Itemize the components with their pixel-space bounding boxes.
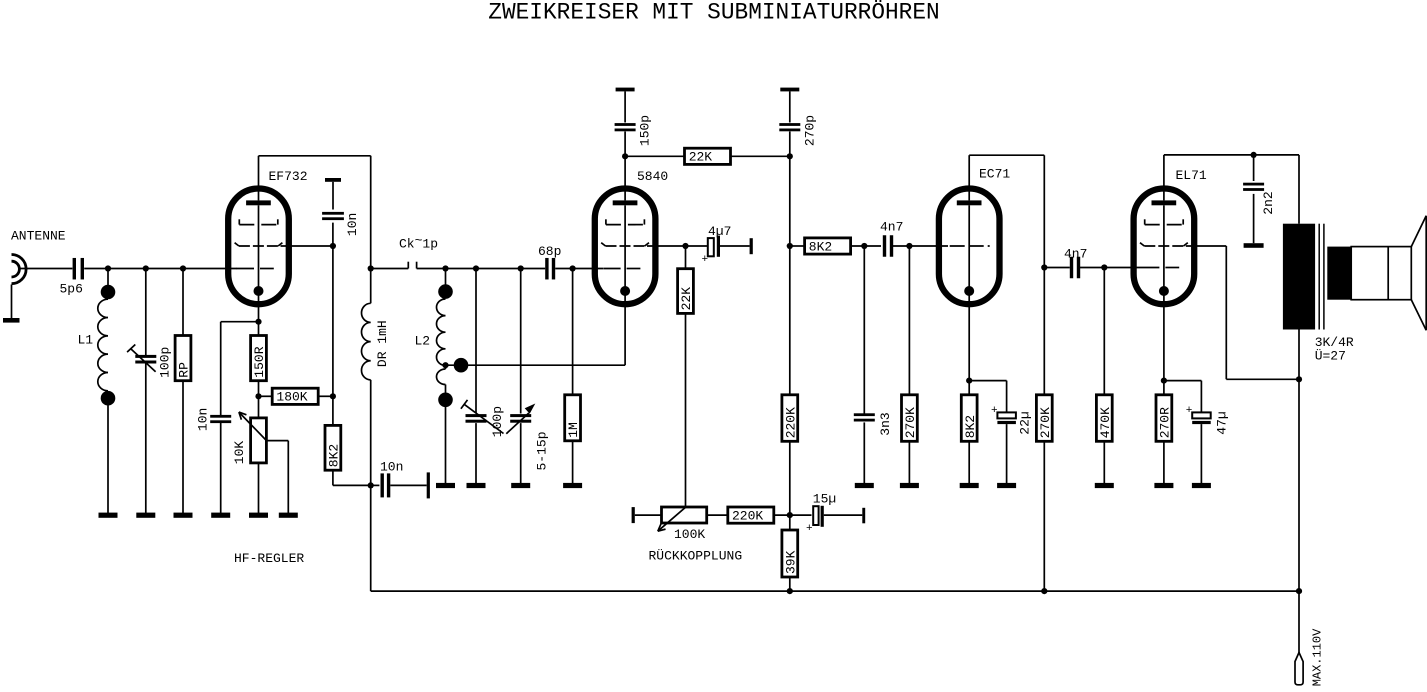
label L1 [78,333,94,348]
label 100p-2 [490,406,505,437]
svg-text:1M: 1M [566,422,581,438]
wire node to 15u [790,514,812,516]
wire to 1M [572,269,574,395]
svg-text:270K: 270K [903,407,918,438]
node 3n3 top [861,243,867,249]
svg-text:5p6: 5p6 [60,282,83,297]
wire 10K wiper [267,441,289,514]
capacitor 4u7 [708,236,720,257]
capacitor Ck [408,262,416,269]
wire to trimmer C100p [145,269,147,356]
label ANTENNE [11,229,66,244]
capacitor 5p6 [73,258,84,280]
wire bus to connector [1298,591,1300,654]
label EL71 [1176,168,1207,183]
node RP top [180,265,186,271]
wire L2 to ground [445,407,447,484]
svg-text:150R: 150R [252,346,267,377]
wire Ck to L2 [417,268,546,270]
svg-text:22K: 22K [679,287,694,311]
wire 1M to ground [572,441,574,484]
wire 150p to node [624,132,626,157]
ground 10K [249,513,268,518]
wire 270K-1 down [908,246,910,395]
wire node to 22K [625,155,685,157]
wire 470K down [1103,268,1105,395]
svg-text:8K2: 8K2 [327,444,342,467]
label 10n cathode [196,408,211,431]
capacitor 10n cathode [210,415,231,423]
wire 22K-2 down [685,246,687,269]
label 270p [802,115,817,146]
ground C5-15p [511,483,530,488]
label RUCKKOPPLUNG [649,549,743,564]
label U=27 [1315,349,1346,364]
node 220K bottom [787,512,793,518]
wire main grid line [84,268,237,270]
wire antenna to C 5p6 [19,268,72,270]
label MAX.110V [1311,628,1325,686]
svg-text:470K: 470K [1098,407,1113,438]
label 2n2 [1261,191,1276,214]
wire anode load down [1043,155,1045,395]
label 22u [1018,411,1033,434]
svg-text:EC71: EC71 [979,167,1010,182]
plus 4u7 [702,254,709,266]
node 470K top [1101,264,1107,270]
label 68p [538,244,561,259]
wire 100K to 220K [706,514,728,516]
wire trimmer-2 to ground [475,423,477,483]
node L1 top [105,265,111,271]
svg-text:5-15p: 5-15p [535,431,550,470]
svg-text:+: + [702,254,709,266]
wire 47u to ground [1200,424,1202,483]
resistor 220K feedback [728,507,774,523]
capacitor 4n7 second [1070,257,1080,279]
node L2 top [442,265,448,271]
node L2 tap [442,358,468,373]
svg-text:2n2: 2n2 [1261,191,1276,214]
svg-text:68p: 68p [538,244,561,259]
capacitor 10n bottom [381,473,391,497]
svg-text:270p: 270p [802,115,817,146]
node 1M top [570,265,576,271]
wire 270R to ground [1163,441,1165,483]
label 10n bottom [380,460,403,475]
inductor L2 [437,284,453,407]
label 4n7 second [1064,247,1087,262]
supply stub 150p [616,88,635,92]
svg-text:+: + [806,523,813,535]
svg-text:RP: RP [177,362,192,378]
plus 22u [991,405,998,417]
terminal C10n-b [427,472,430,498]
wire 68p to 5840 [555,268,603,270]
wire stub to C10n [332,182,334,210]
label 5p6 [60,282,83,297]
label EF732 [269,169,308,184]
wire main node to DR [370,269,372,304]
wire terminal to 100K [635,514,662,516]
label 150p [638,115,653,146]
node 39K bus [787,588,793,594]
terminal 4u7 [750,238,753,254]
label Ck~1p [399,233,438,252]
svg-text:ZWEIKREISER MIT SUBMINIATURRÖH: ZWEIKREISER MIT SUBMINIATURRÖHREN [488,0,939,25]
label HF-REGLER [234,551,304,566]
ground 1M [563,483,582,488]
wire EL71 anode top [1164,154,1299,156]
svg-text:4n7: 4n7 [1064,247,1087,262]
resistor 220K anode [782,395,799,442]
resistor 180K [272,388,318,404]
resistor 8K2 cathode [961,395,978,442]
wire EF732 anode top [259,155,371,157]
capacitor 150p [615,123,636,131]
node EF732 g2 [330,243,336,249]
ground C10n-k [211,513,230,518]
wire 270K-1 to ground [908,441,910,483]
label 100K [674,527,705,542]
ground antenna [3,318,20,323]
node EF732 cathode [255,319,261,325]
wire cathode to 150R [258,322,260,336]
resistor 39K [782,530,799,577]
svg-text:100K: 100K [674,527,705,542]
connector MAX.110V [1295,653,1303,685]
capacitor 4n7 first [883,235,893,257]
label 4n7 first [880,220,903,235]
node EL71 cathode [1161,378,1167,384]
tube EC71 [939,155,1000,395]
svg-text:180K: 180K [276,390,307,405]
resistor 150R [251,336,268,381]
node 8K2 left [787,243,793,249]
title text [488,0,939,25]
svg-text:100p: 100p [158,347,173,378]
svg-text:+: + [991,405,998,417]
node bus right [1296,588,1302,594]
node main DR [368,265,374,271]
wire cathode to C10n-k [221,321,259,323]
capacitor 270p [779,123,800,131]
svg-text:8K2: 8K2 [963,415,978,438]
node EC71 cathode [966,378,972,384]
resistor 8K2 screen [325,425,342,470]
resistor 470K [1096,395,1113,442]
node DR bottom [368,482,374,488]
label 47u [1215,411,1230,434]
antenna [12,255,27,284]
node transformer g2 [1296,376,1302,382]
node 2n2 top [1251,152,1257,158]
svg-text:MAX.110V: MAX.110V [1311,628,1325,686]
node 270K-2 bus [1041,588,1047,594]
node C100p-2 top [473,265,479,271]
svg-text:270R: 270R [1158,407,1173,438]
capacitor 22u [997,412,1016,424]
label 3n3 [878,412,893,435]
wire 2n2 down [1253,155,1255,181]
ground 47u [1192,483,1211,488]
label 5840 [637,169,668,184]
ground 10K wiper [279,513,298,518]
ground 22u [997,483,1016,488]
wire EC71 anode top [969,154,1044,156]
svg-text:3n3: 3n3 [878,412,893,435]
svg-text:39K: 39K [783,550,798,574]
ground L1 [99,513,118,518]
wire 180K to 8K2 column [318,395,333,397]
svg-text:5840: 5840 [637,169,668,184]
svg-text:47µ: 47µ [1215,411,1230,434]
resistor 1M [565,395,582,441]
tube 5840 [595,156,656,365]
svg-text:22µ: 22µ [1018,411,1033,434]
terminal 15u [862,508,865,524]
wire C5-15p to ground [520,423,522,483]
capacitor 47u [1192,412,1211,424]
label 10n screen [345,213,360,236]
wire 3n3 to ground [863,422,865,483]
svg-text:ANTENNE: ANTENNE [11,229,66,244]
potentiometer 100K [658,507,707,531]
wire 270K-2 to bus [1043,441,1045,591]
svg-text:EL71: EL71 [1176,168,1207,183]
resistor 270R [1156,395,1173,442]
node 22K right [787,153,793,159]
wire 8K2 down [332,470,334,485]
wire EF732 g2 to C10n [281,245,333,247]
label EC71 [979,167,1010,182]
wire transformer bottom [1298,330,1300,380]
wire node down to bus [370,485,372,591]
wire 220K to node [773,514,789,516]
svg-text:220K: 220K [783,407,798,438]
wire C10n-k to ground [220,423,222,514]
ground C100p [136,513,155,518]
wire anode to transformer [1298,155,1300,224]
node 270K-1 top [906,243,912,249]
wire to L1 [107,269,109,287]
label 15u [813,492,836,507]
terminal 100K left [632,507,635,523]
wire node to 8K2 [790,245,805,247]
node 5840 anode [622,153,628,159]
node 22K-2 top [682,243,688,249]
wire node to 180K [259,395,273,397]
variable capacitor 5-15p [506,404,535,434]
svg-text:Ü=27: Ü=27 [1315,349,1346,364]
wire 4n7-2 to EL71 [1079,267,1143,269]
ground 8K2-k [960,483,979,488]
node 180K right [330,393,336,399]
wire 15u to terminal [824,514,863,516]
supply stub C10n screen [325,178,341,182]
svg-text:10n: 10n [345,213,360,236]
ground 470K [1095,483,1114,488]
wire EL71 g2 [1186,246,1299,379]
wire 10K to ground [258,463,260,514]
svg-text:10n: 10n [196,408,211,431]
label DR 1mH [375,320,390,367]
wire 4u7 to terminal [720,245,750,247]
label 10K [232,441,247,465]
wire trimmer to ground [145,363,147,514]
svg-text:4n7: 4n7 [880,220,903,235]
wire node to C10n-b [371,484,380,486]
wire stub to 150p [624,91,626,122]
wire 22K-2 to 100K wiper [685,313,687,507]
label 100p [158,347,173,378]
label 5-15p [535,431,550,470]
wire down to bus right [1298,379,1300,591]
tube EF732 [228,156,289,322]
trimmer capacitor 100p-2 [461,400,504,434]
wire 22u to ground [1006,424,1008,483]
capacitor 10n screen [322,212,344,220]
wire 8K2-k to ground [968,441,970,483]
wire antenna stem [11,285,13,319]
wire to trimmer-2 [475,269,477,414]
capacitor 15u [813,506,824,527]
inductor L1 [98,285,115,406]
terminal 2n2 [1244,243,1264,248]
wire B+ bus [371,590,1299,592]
wire 8K2 to DR node [333,484,371,486]
wire L2 tap to 5840 cathode [446,364,626,366]
wire cathode to 22u [969,381,1006,413]
wire C10n-k down [220,322,222,416]
svg-text:100p: 100p [490,406,505,437]
wire 270p down [789,132,791,395]
wire 3n3 down [863,246,865,414]
capacitor 3n3 [854,413,875,421]
resistor 22K grid [678,269,695,314]
svg-text:150p: 150p [638,115,653,146]
wire C10n down to R8K2 [332,223,334,426]
ground 270R [1154,483,1173,488]
wire 4n7 to EC71 [892,245,949,247]
plus 15u [806,523,813,535]
supply stub 270p [780,88,799,92]
wire top to main node [370,156,372,269]
capacitor 68p [545,258,555,280]
resistor RP [175,336,192,381]
svg-text:220K: 220K [732,508,763,523]
ground RP [174,513,193,518]
speaker [1327,216,1426,330]
label 3K/4R [1315,335,1354,350]
transformer core [1319,224,1324,330]
resistor 8K2 coupling [805,238,851,254]
wire 150R to node [258,381,260,418]
wire stub to 270p [789,91,791,122]
potentiometer 10K [239,412,267,463]
wire node to 4n7-2 [1044,267,1070,269]
svg-text:8K2: 8K2 [809,239,832,254]
wire 470K to ground [1103,441,1105,483]
node C100p top [143,265,149,271]
node 4n7-2 left [1041,264,1047,270]
trimmer capacitor 100p [127,345,156,372]
wire DR to node [370,380,372,486]
inductor DR 1mH [361,303,370,380]
svg-text:10n: 10n [380,460,403,475]
wire to L2 [445,269,447,286]
wire RP to ground [182,381,184,514]
ground 3n3 [855,483,874,488]
svg-text:270K: 270K [1038,407,1053,438]
svg-text:22K: 22K [689,150,713,165]
wire 2n2 to terminal [1253,194,1255,243]
capacitor 2n2 [1243,183,1264,191]
wire 39K to bus [789,577,791,591]
wire to RP [182,269,184,336]
label 4u7 [708,224,731,239]
wire 220K to node [789,441,791,530]
svg-text:DR 1mH: DR 1mH [375,320,390,367]
svg-text:4µ7: 4µ7 [708,224,731,239]
svg-text:HF-REGLER: HF-REGLER [234,551,304,566]
svg-text:EF732: EF732 [269,169,308,184]
svg-text:10K: 10K [232,441,247,465]
svg-text:L1: L1 [78,333,94,348]
transformer primary [1283,224,1315,330]
wire 22K to 270p node [730,155,790,157]
svg-text:15µ: 15µ [813,492,836,507]
wire L1 to ground [107,405,109,514]
resistor 22K anode [685,148,731,164]
svg-text:L2: L2 [415,334,431,349]
wire main to Ck [371,268,409,270]
node C5-15p top [518,265,524,271]
ground L2 [436,483,455,488]
wire 8K2 to 3n3 node [850,245,881,247]
tube EL71 [1134,155,1195,395]
svg-text:+: + [1186,405,1193,417]
wire 5840 g2 [647,245,708,247]
wire C10n-b to terminal [390,484,426,486]
wire cathode to 47u [1164,381,1202,413]
ground trimmer-2 [467,483,486,488]
svg-text:RÜCKKOPPLUNG: RÜCKKOPPLUNG [649,549,743,564]
wire to C5-15p [520,269,522,414]
resistor 270K anode [1036,395,1053,442]
ground 270K-1 [900,483,919,488]
plus 47u [1186,405,1193,417]
resistor 270K grid [902,395,919,442]
label L2 [415,334,431,349]
node 150R bottom [255,393,261,399]
